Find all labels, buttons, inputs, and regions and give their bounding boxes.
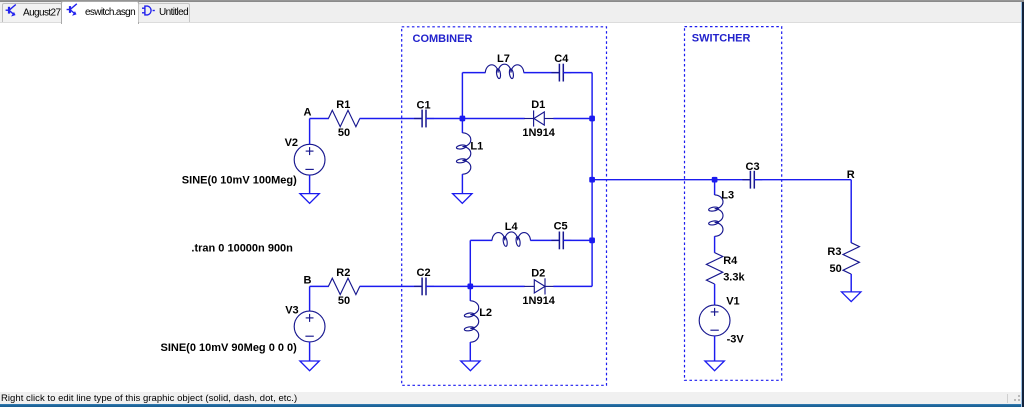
- svg-text:L2: L2: [479, 307, 492, 319]
- resistor R2: [328, 278, 359, 294]
- svg-text:L1: L1: [470, 140, 483, 152]
- wire node A down to V2: [309, 119, 311, 145]
- tab3 symbol icon: [142, 6, 155, 15]
- svg-text:R4: R4: [723, 255, 738, 267]
- wire node B to R2: [310, 285, 329, 287]
- wire C1 to junction: [426, 118, 462, 120]
- wire lower-left corner to L4: [470, 239, 492, 241]
- svg-text:50: 50: [338, 295, 350, 307]
- ground under V1: [705, 361, 724, 371]
- svg-text:B: B: [304, 274, 312, 286]
- graphic box COMBINER (dashed): [402, 27, 607, 386]
- voltage source V3: [294, 311, 325, 342]
- resize grip: [1010, 394, 1021, 404]
- svg-text:50: 50: [338, 127, 350, 139]
- top window edge: [0, 0, 1024, 2]
- tab1 schematic icon: [6, 5, 16, 16]
- wire junction up to top branch: [461, 73, 463, 119]
- svg-text:R1: R1: [336, 99, 350, 111]
- wire R1 to C1: [360, 118, 423, 120]
- svg-text:1N914: 1N914: [522, 295, 555, 307]
- tab eswitch.asgn (active): [61, 1, 139, 24]
- inductor L2: [464, 301, 479, 342]
- capacitor C2: [414, 278, 434, 296]
- svg-text:50: 50: [830, 263, 842, 275]
- wire D1 to right bus: [553, 118, 592, 120]
- capacitor C5: [551, 232, 571, 250]
- junction D1/right bus: [589, 116, 595, 122]
- wire L1 to ground: [461, 174, 463, 194]
- resistor R1: [328, 110, 359, 126]
- svg-text:L3: L3: [721, 190, 734, 202]
- wire junction up to lower branch: [469, 240, 471, 286]
- tab August27: [2, 3, 62, 22]
- junction L3 tap: [712, 177, 718, 183]
- capacitor C1: [414, 110, 434, 128]
- wire tap down to L3: [714, 180, 716, 195]
- wire D2 to right bus: [553, 285, 592, 287]
- capacitor C3: [742, 171, 762, 189]
- wire C4 to top-right corner: [563, 72, 592, 74]
- tab Untitled: [138, 3, 190, 22]
- wire C5 to lower-right corner: [563, 239, 592, 241]
- graphic box SWITCHER (dashed): [685, 27, 782, 381]
- wire top-left corner to L7: [462, 72, 485, 74]
- svg-text:V1: V1: [726, 296, 739, 308]
- diode D2 (1N914, cathode right): [524, 278, 553, 294]
- wire node A to R1: [310, 118, 329, 120]
- svg-text:A: A: [304, 106, 312, 118]
- tab bar background: [0, 2, 1024, 23]
- svg-text:R: R: [847, 169, 855, 181]
- svg-text:COMBINER: COMBINER: [413, 33, 473, 45]
- wire output to switcher: [592, 179, 750, 181]
- svg-text:L4: L4: [505, 221, 519, 233]
- svg-text:C4: C4: [554, 53, 569, 65]
- wire L4 to C5: [530, 239, 559, 241]
- wire L3 to R4: [714, 236, 716, 253]
- resistor R3: [843, 243, 859, 274]
- junction output node: [589, 177, 595, 183]
- svg-text:V2: V2: [285, 137, 298, 149]
- wire V2 to ground: [309, 175, 311, 194]
- svg-text:C2: C2: [417, 267, 431, 279]
- svg-text:1N914: 1N914: [522, 127, 555, 139]
- junction L4-C5/right bus: [589, 238, 595, 244]
- wire junction to D2: [470, 285, 524, 287]
- inductor L3: [708, 195, 723, 236]
- wire node B down to V3: [309, 286, 311, 311]
- wire junction down to L1: [461, 119, 463, 133]
- ground under V2: [300, 194, 319, 204]
- wire C2 to junction: [426, 285, 470, 287]
- resistor R4: [706, 253, 722, 284]
- wire R3 to ground: [850, 274, 852, 292]
- ground under L1: [453, 194, 472, 204]
- inductor L7: [485, 64, 524, 79]
- wire junction to D1: [462, 118, 524, 120]
- wire V3 to ground: [309, 342, 311, 361]
- svg-text:SINE(0 10mV 100Meg): SINE(0 10mV 100Meg): [182, 174, 297, 186]
- voltage source V2: [294, 144, 325, 175]
- svg-text:C1: C1: [417, 99, 431, 111]
- ground under V3: [300, 361, 319, 371]
- svg-text:L7: L7: [497, 53, 510, 65]
- status bar: [0, 392, 1024, 404]
- wire V1 to ground: [714, 336, 716, 361]
- wire right bus vertical: [591, 73, 593, 287]
- junction C1/L1/L7 node: [460, 116, 466, 122]
- ground under R3: [842, 292, 861, 302]
- junction C2/L2/L4 node: [467, 284, 473, 290]
- svg-text:D2: D2: [531, 268, 545, 280]
- wire C3 to node R: [754, 179, 851, 181]
- svg-text:D1: D1: [531, 99, 545, 111]
- wire R4 to V1: [714, 284, 716, 305]
- svg-text:-3V: -3V: [727, 333, 745, 345]
- svg-text:V3: V3: [285, 304, 298, 316]
- svg-text:SWITCHER: SWITCHER: [692, 33, 751, 45]
- svg-text:C3: C3: [746, 161, 760, 173]
- wire node R down to R3: [850, 180, 852, 243]
- svg-text:3.3k: 3.3k: [723, 272, 745, 284]
- wire R2 to C2: [360, 285, 423, 287]
- inductor L4: [492, 232, 531, 247]
- bottom window border: [0, 404, 1024, 407]
- wire junction down to L2: [469, 286, 471, 301]
- ground under L2: [461, 361, 480, 371]
- wire L2 to ground: [469, 342, 471, 361]
- svg-text:R2: R2: [336, 267, 350, 279]
- svg-text:SINE(0 10mV 90Meg 0 0 0): SINE(0 10mV 90Meg 0 0 0): [161, 342, 298, 354]
- svg-text:R3: R3: [827, 246, 841, 258]
- inductor L1: [456, 133, 471, 174]
- svg-text:C5: C5: [554, 220, 568, 232]
- wire L7 to C4: [524, 72, 560, 74]
- diode D1 (1N914, cathode left): [524, 110, 553, 126]
- tab2 schematic icon: [67, 4, 77, 15]
- right window border: [1021, 2, 1022, 407]
- capacitor C4: [551, 64, 571, 82]
- svg-text:.tran 0 10000n 900n: .tran 0 10000n 900n: [191, 242, 293, 254]
- voltage source V1: [699, 305, 730, 336]
